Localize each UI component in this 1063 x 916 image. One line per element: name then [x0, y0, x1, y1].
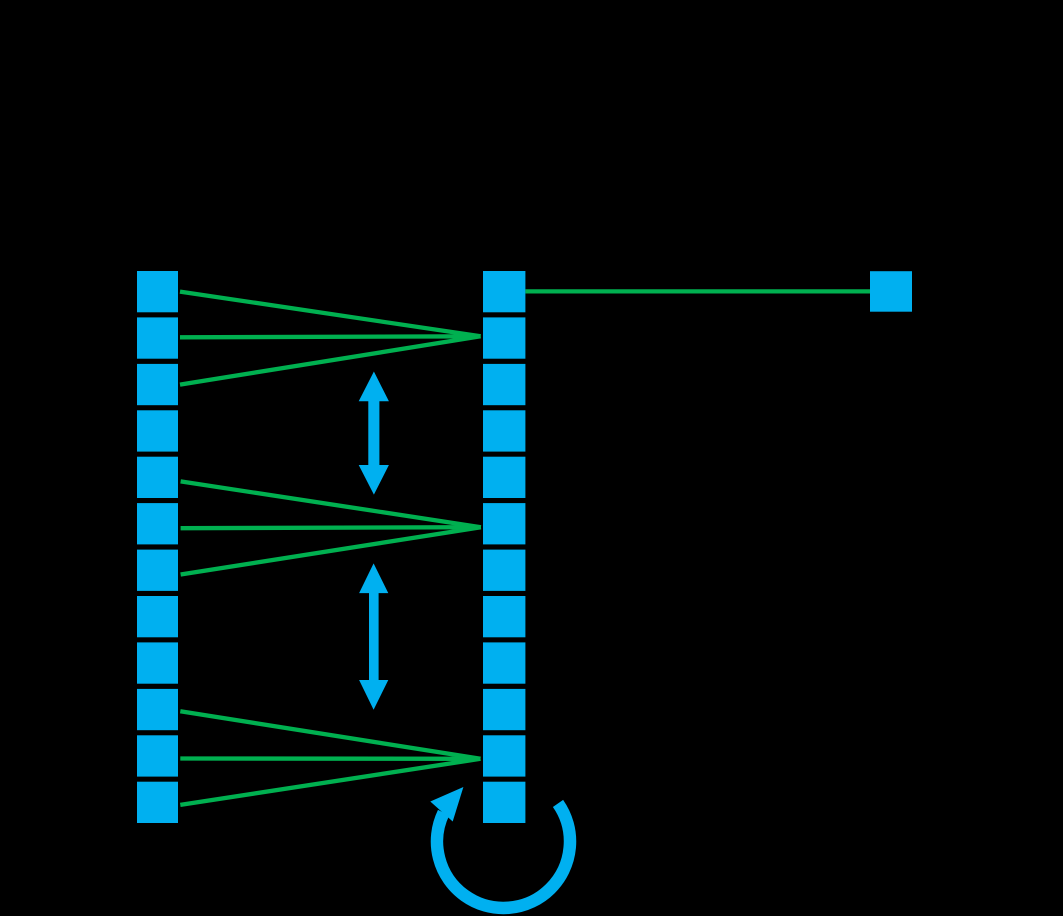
green link middle row1 to right output square	[525, 289, 870, 293]
blue double arrow lower	[359, 563, 388, 709]
green link left row2 to middle row2	[180, 336, 481, 337]
green link left row1 to middle row2	[180, 292, 481, 337]
green link left row10 to middle row11	[180, 711, 480, 759]
left column square row2	[137, 317, 178, 358]
left column square row4	[137, 410, 178, 451]
left column square row12	[137, 782, 178, 823]
middle column square row8	[483, 596, 525, 637]
left column square row6	[137, 503, 178, 544]
middle column square row7	[483, 550, 525, 591]
green link left row5 to middle row6	[181, 481, 481, 527]
green link left row11 to middle row11	[180, 756, 480, 761]
left column square row5	[137, 457, 178, 498]
left column square row10	[137, 689, 178, 730]
left column square row9	[137, 642, 178, 683]
green link left row12 to middle row11	[180, 759, 480, 805]
left column square row11	[137, 735, 178, 776]
middle column square row11	[483, 735, 525, 776]
right output square	[870, 271, 912, 312]
blue circular rotation arrow arc	[437, 803, 570, 908]
middle column square row1	[483, 271, 525, 312]
green link left row6 to middle row6	[181, 527, 481, 528]
middle column square row3	[483, 364, 525, 405]
left column square row7	[137, 550, 178, 591]
green link left row7 to middle row6	[181, 527, 481, 574]
green link left row3 to middle row2	[180, 336, 481, 384]
left column square row1	[137, 271, 178, 312]
middle column square row12	[483, 782, 525, 823]
left column square row3	[137, 364, 178, 405]
middle column square row9	[483, 642, 525, 683]
left column square row8	[137, 596, 178, 637]
blue circular rotation arrow head	[430, 787, 463, 822]
middle column square row10	[483, 689, 525, 730]
blue double arrow upper	[359, 372, 389, 495]
middle column square row4	[483, 410, 525, 451]
middle column square row2	[483, 317, 525, 358]
middle column square row5	[483, 457, 525, 498]
middle column square row6	[483, 503, 525, 544]
